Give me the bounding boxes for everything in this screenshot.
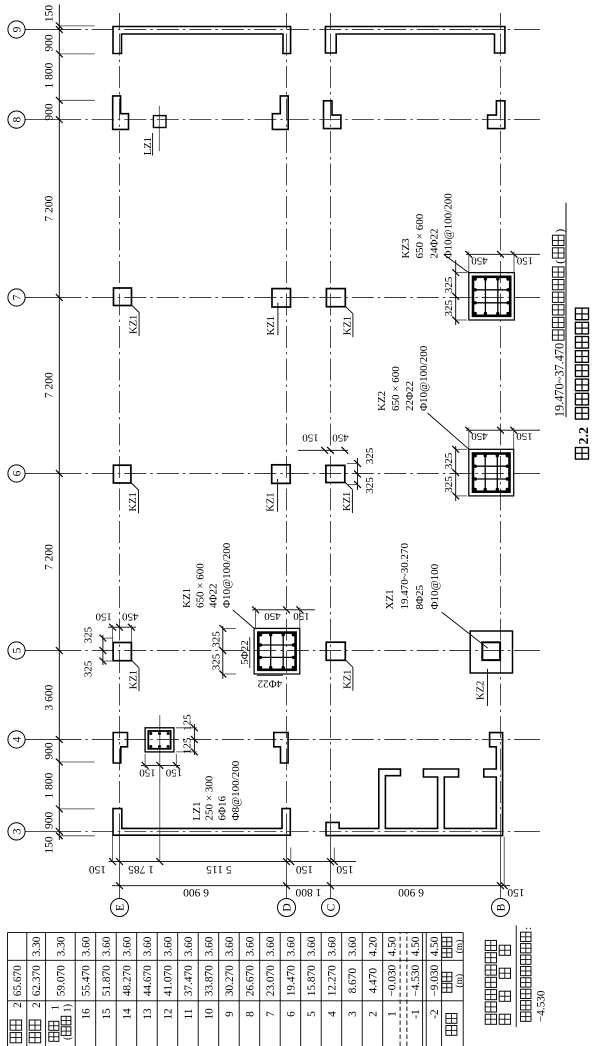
- svg-text:150: 150: [302, 432, 319, 444]
- axis 5 gridline: [25, 650, 59, 652]
- svg-text:19.470~30.270: 19.470~30.270: [399, 543, 411, 610]
- svg-text:3.60: 3.60: [306, 936, 318, 956]
- svg-text:150: 150: [43, 5, 55, 23]
- svg-text:6 900: 6 900: [398, 886, 424, 898]
- svg-text:8Φ25: 8Φ25: [414, 584, 426, 609]
- axis C gridline: [330, 836, 332, 899]
- dims column E/5 450/150: [108, 626, 136, 628]
- svg-text:1: 1: [50, 1005, 61, 1010]
- wall pier C/8: [324, 101, 341, 129]
- axis 3 bubble: [8, 823, 25, 840]
- svg-text:12: 12: [162, 1008, 174, 1020]
- svg-text:2: 2: [367, 1011, 379, 1017]
- leader XZ1: [442, 612, 488, 648]
- svg-text:19.470: 19.470: [285, 965, 297, 996]
- svg-text:3.60: 3.60: [121, 936, 133, 956]
- svg-text:4.50: 4.50: [386, 936, 398, 956]
- svg-text:(: (: [62, 1036, 73, 1040]
- svg-text:KZ2: KZ2: [376, 391, 388, 411]
- dims column C/6 325/325: [357, 458, 359, 490]
- svg-text:44.670: 44.670: [142, 965, 154, 996]
- column LZ1 (plan position near axis 8): [158, 106, 160, 151]
- top dimension line: [58, 5, 60, 841]
- svg-text:450: 450: [471, 254, 488, 266]
- svg-text:12.270: 12.270: [326, 965, 338, 996]
- svg-text:2: 2: [12, 1002, 24, 1008]
- column KZ2 with core XZ1 at B/5: [470, 631, 512, 673]
- axis 4 bubble: [8, 731, 25, 748]
- svg-text:Φ10@100: Φ10@100: [429, 563, 441, 609]
- svg-text:8.670: 8.670: [347, 968, 359, 994]
- column KZ1 C/6: [326, 465, 345, 482]
- svg-text:3.60: 3.60: [347, 936, 359, 956]
- svg-text:3.30: 3.30: [31, 936, 43, 956]
- caption: figure 2.2 title: [575, 448, 588, 460]
- axis 8 bubble: [8, 111, 25, 128]
- dims KZ1sec 325/325: [222, 626, 224, 679]
- svg-text:3.60: 3.60: [183, 936, 195, 956]
- svg-text:(m): (m): [454, 974, 465, 988]
- svg-text:KZ1: KZ1: [129, 315, 140, 334]
- svg-text:22Φ22: 22Φ22: [404, 381, 416, 411]
- svg-text:3.60: 3.60: [81, 936, 93, 956]
- svg-text:125: 125: [181, 737, 193, 754]
- section KZ3 at B/7: [469, 273, 515, 320]
- svg-text:6 900: 6 900: [183, 886, 209, 898]
- svg-text:8: 8: [244, 1011, 256, 1017]
- svg-text:5: 5: [306, 1011, 318, 1017]
- axis 6 bubble: [8, 465, 25, 482]
- svg-text:KZ3: KZ3: [400, 238, 412, 259]
- svg-text:Φ10@100/200: Φ10@100/200: [443, 193, 455, 259]
- svg-text:KZ1: KZ1: [342, 492, 353, 511]
- svg-text:4.50: 4.50: [429, 936, 441, 956]
- svg-text:150: 150: [516, 254, 533, 266]
- svg-text:150: 150: [165, 767, 182, 779]
- svg-text:8: 8: [12, 116, 24, 122]
- svg-text:−0.030: −0.030: [386, 964, 398, 996]
- svg-text:-2: -2: [429, 1009, 441, 1019]
- svg-text:6: 6: [285, 1011, 297, 1017]
- svg-text:KZ1: KZ1: [343, 316, 354, 335]
- svg-text:150: 150: [516, 430, 533, 442]
- svg-text:KZ1: KZ1: [129, 670, 140, 689]
- dims KZ3 450/150: [466, 253, 540, 255]
- axis B bubble: [492, 899, 510, 917]
- svg-text:9: 9: [12, 26, 24, 32]
- svg-text:3.60: 3.60: [224, 936, 236, 956]
- svg-text:3.60: 3.60: [244, 936, 256, 956]
- dims LZ1 150/150: [141, 764, 180, 766]
- svg-text:62.370: 62.370: [31, 965, 43, 996]
- svg-text:37.470: 37.470: [183, 965, 195, 996]
- column KZ1 C/7: [326, 289, 345, 307]
- letter axes main dimension line: [112, 885, 510, 887]
- svg-text:15.870: 15.870: [306, 965, 318, 996]
- svg-text:4.470: 4.470: [367, 968, 379, 994]
- svg-text:D: D: [282, 903, 294, 911]
- svg-text:2.2: 2.2: [577, 427, 592, 445]
- storey/elevation table: [8, 1000, 464, 1002]
- svg-text:1 800: 1 800: [295, 886, 321, 898]
- svg-text:4.20: 4.20: [367, 936, 379, 956]
- axis 5 bubble: [8, 642, 25, 659]
- axis D bubble: [278, 899, 296, 917]
- svg-text:1): 1): [62, 1004, 73, 1013]
- svg-text:4Φ22: 4Φ22: [258, 678, 283, 690]
- svg-text:9: 9: [224, 1011, 236, 1017]
- svg-text:1: 1: [386, 1011, 398, 1017]
- svg-text:125: 125: [181, 714, 193, 731]
- svg-text::: :: [522, 927, 534, 930]
- edge extension at B side: [503, 837, 505, 886]
- svg-text:7: 7: [12, 294, 24, 300]
- note: embedment: [521, 1012, 532, 1021]
- svg-text:6Φ16: 6Φ16: [217, 795, 229, 820]
- svg-text:3.60: 3.60: [162, 936, 174, 956]
- svg-text:3.60: 3.60: [101, 936, 113, 956]
- axis 7 gridline: [25, 297, 59, 299]
- svg-text:325: 325: [210, 631, 222, 648]
- wall axis9 C-B: [325, 27, 505, 54]
- column KZ1 D/6: [272, 465, 291, 484]
- axis 8 gridline: [25, 119, 59, 121]
- svg-text:450: 450: [121, 611, 138, 623]
- dims column E/5 325/325: [102, 635, 104, 665]
- svg-text:325: 325: [443, 299, 455, 316]
- leader KZ3: [444, 254, 470, 273]
- wall pier E/4: [113, 733, 127, 764]
- wall pier E/8: [113, 96, 129, 130]
- svg-text:16: 16: [81, 1008, 93, 1020]
- dims KZ1sec 450/150: [252, 609, 315, 611]
- svg-text:7 200: 7 200: [43, 195, 55, 221]
- svg-text:E: E: [115, 904, 127, 911]
- svg-text:): ): [553, 229, 567, 233]
- note: structural storey elevations: [485, 1014, 496, 1024]
- svg-text:−4.530: −4.530: [410, 964, 422, 996]
- svg-text:7 200: 7 200: [43, 372, 55, 398]
- svg-text:325: 325: [443, 476, 455, 493]
- label KZ1 C/6: [345, 482, 353, 490]
- svg-text:C: C: [326, 903, 338, 911]
- svg-text:450: 450: [471, 430, 488, 442]
- column KZ1 C/5: [326, 642, 345, 660]
- svg-text:7 200: 7 200: [43, 544, 55, 570]
- svg-text:325: 325: [210, 653, 222, 670]
- axis B gridline: [500, 836, 502, 899]
- svg-text:KZ1: KZ1: [266, 316, 277, 335]
- section KZ1 at D/5: [254, 628, 300, 674]
- dims KZ2 325/325: [455, 446, 457, 501]
- svg-text:10: 10: [203, 1008, 215, 1020]
- svg-text:30.270: 30.270: [224, 965, 236, 996]
- svg-text:4Φ22: 4Φ22: [208, 583, 220, 608]
- svg-text:3 600: 3 600: [43, 684, 55, 710]
- svg-text:KZ1: KZ1: [343, 670, 354, 689]
- svg-text:3.60: 3.60: [326, 936, 338, 956]
- svg-text:325: 325: [364, 477, 376, 494]
- svg-text:KZ1: KZ1: [181, 588, 193, 608]
- svg-text:3: 3: [347, 1011, 359, 1017]
- svg-text:13: 13: [142, 1008, 154, 1020]
- svg-text:650 × 600: 650 × 600: [195, 563, 207, 608]
- label KZ1 D/6: [277, 479, 279, 512]
- dims LZ1 125/125: [193, 724, 195, 755]
- wall axis9 E-D: [113, 27, 291, 54]
- label KZ1 C/7: [345, 306, 353, 314]
- svg-text:450: 450: [264, 610, 281, 622]
- axis 6 gridline: [25, 473, 59, 475]
- svg-text:325: 325: [82, 626, 94, 643]
- svg-text:650 × 600: 650 × 600: [390, 366, 402, 411]
- axis 4 gridline: [25, 739, 59, 741]
- axis 9 gridline: [25, 29, 59, 31]
- svg-text:−4.530: −4.530: [536, 990, 548, 1022]
- wall pier D/4: [274, 733, 288, 764]
- axis E bubble: [111, 899, 129, 917]
- svg-text:150: 150: [336, 863, 354, 875]
- svg-text:450: 450: [332, 432, 349, 444]
- wall pier D/8: [272, 96, 288, 130]
- svg-text:26.670: 26.670: [244, 965, 256, 996]
- svg-text:5: 5: [12, 647, 24, 653]
- dims column C/6 450/150: [298, 449, 348, 451]
- svg-text:4: 4: [326, 1011, 338, 1017]
- svg-text:150: 150: [296, 863, 314, 875]
- dims KZ2 450/150: [466, 429, 540, 431]
- LZ1 locating line (1785 from E): [159, 715, 161, 862]
- svg-text:250 × 300: 250 × 300: [204, 775, 216, 820]
- svg-text:4: 4: [12, 736, 24, 742]
- svg-text:KZ2: KZ2: [476, 681, 487, 700]
- svg-text:33.870: 33.870: [203, 965, 215, 996]
- table header: [446, 1026, 457, 1036]
- column KZ1 E/5: [113, 643, 131, 661]
- svg-text:3.60: 3.60: [285, 936, 297, 956]
- column KZ1 E/6: [113, 465, 130, 483]
- svg-text:1 785: 1 785: [128, 863, 154, 875]
- svg-text:150: 150: [139, 767, 156, 779]
- leader KZ2: [428, 413, 470, 449]
- svg-text:LZ1: LZ1: [191, 802, 203, 821]
- svg-text:59.070: 59.070: [55, 965, 67, 996]
- svg-text:5Φ22: 5Φ22: [239, 640, 251, 665]
- segment dim extension stubs: [112, 836, 114, 862]
- leader KZ1 section: [233, 610, 254, 629]
- svg-text:(: (: [553, 260, 567, 264]
- svg-text:1 800: 1 800: [43, 62, 55, 88]
- svg-text:150: 150: [43, 836, 55, 854]
- wall axis3 E-D: [113, 809, 290, 836]
- svg-text:650 × 600: 650 × 600: [414, 213, 426, 258]
- svg-text:150: 150: [507, 886, 525, 898]
- label KZ1 E/5: [131, 660, 139, 668]
- svg-text:4.50: 4.50: [410, 936, 422, 956]
- svg-text:41.070: 41.070: [162, 965, 174, 996]
- svg-text:3.30: 3.30: [55, 936, 67, 956]
- svg-text:Φ8@100/200: Φ8@100/200: [230, 760, 242, 820]
- svg-text:Φ10@100/200: Φ10@100/200: [418, 345, 430, 411]
- svg-text:24Φ22: 24Φ22: [429, 228, 441, 258]
- svg-text:325: 325: [82, 660, 94, 677]
- wall pier B/8: [488, 101, 505, 129]
- axis 9 bubble: [8, 21, 25, 38]
- svg-text:−9.030: −9.030: [429, 964, 441, 996]
- svg-text:900: 900: [43, 742, 55, 760]
- svg-text:6: 6: [12, 470, 24, 476]
- label KZ1 E/7: [132, 305, 140, 313]
- svg-text:325: 325: [364, 447, 376, 464]
- svg-text:B: B: [496, 903, 508, 911]
- svg-text:Φ10@100/200: Φ10@100/200: [221, 542, 233, 608]
- svg-text:5 115: 5 115: [206, 863, 232, 875]
- svg-text:900: 900: [43, 34, 55, 52]
- axis 3 gridline: [25, 830, 59, 832]
- svg-text:900: 900: [43, 103, 55, 121]
- svg-text:3.60: 3.60: [265, 936, 277, 956]
- svg-text:7: 7: [265, 1011, 277, 1017]
- svg-text:65.670: 65.670: [12, 965, 24, 996]
- svg-text:3.60: 3.60: [203, 936, 215, 956]
- section LZ1 at axis4: [145, 728, 174, 752]
- axis 7 bubble: [8, 289, 25, 306]
- svg-text:KZ1: KZ1: [128, 492, 139, 511]
- svg-text:150: 150: [95, 611, 112, 623]
- svg-text:48.270: 48.270: [121, 965, 133, 996]
- svg-text:14: 14: [121, 1008, 133, 1020]
- column KZ1 E/7: [114, 288, 132, 306]
- label KZ1 D/7: [277, 303, 279, 336]
- svg-text:900: 900: [43, 811, 55, 829]
- section KZ2 at B/6: [469, 449, 514, 496]
- svg-text:23.070: 23.070: [265, 965, 277, 996]
- letter axes segment dimension line: [109, 861, 356, 863]
- svg-text:XZ1: XZ1: [384, 589, 396, 609]
- axis C bubble: [322, 899, 340, 917]
- svg-text:2: 2: [31, 1002, 43, 1008]
- dims KZ3 325/325: [455, 260, 457, 325]
- svg-text:150: 150: [293, 610, 310, 622]
- svg-text:325: 325: [443, 452, 455, 469]
- svg-text:55.470: 55.470: [81, 965, 93, 996]
- label KZ1 C/5: [345, 660, 353, 668]
- svg-text:(m): (m): [454, 940, 465, 954]
- svg-text:51.870: 51.870: [101, 965, 113, 996]
- svg-text:3: 3: [12, 828, 24, 834]
- axis E gridline: [119, 836, 121, 899]
- svg-text:1 800: 1 800: [43, 772, 55, 798]
- label KZ1 E/6: [131, 483, 139, 491]
- svg-text:-1: -1: [410, 1009, 422, 1018]
- svg-text:3.60: 3.60: [142, 936, 154, 956]
- svg-text:150: 150: [89, 863, 107, 875]
- svg-text:325: 325: [443, 276, 455, 293]
- svg-text:15: 15: [101, 1008, 113, 1020]
- svg-text:11: 11: [183, 1009, 195, 1020]
- svg-text:KZ1: KZ1: [266, 492, 277, 511]
- elevator core walls: [326, 733, 503, 836]
- column KZ1 D/7: [272, 289, 291, 307]
- axis D gridline: [286, 836, 288, 899]
- svg-text:19.470~37.470: 19.470~37.470: [553, 343, 567, 417]
